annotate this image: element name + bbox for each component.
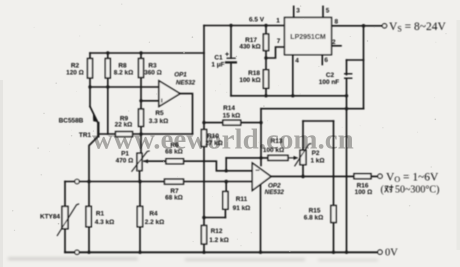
svg-text:NE532: NE532 <box>176 80 196 87</box>
svg-text:BC558B: BC558B <box>59 118 84 125</box>
svg-text:4.3 kΩ: 4.3 kΩ <box>95 219 114 226</box>
svg-text:R12: R12 <box>211 228 223 235</box>
svg-text:VO = 1~6V: VO = 1~6V <box>386 171 439 184</box>
svg-text:7: 7 <box>277 38 281 45</box>
svg-text:100 Ω: 100 Ω <box>355 189 373 196</box>
svg-text:100 nF: 100 nF <box>319 79 339 86</box>
svg-text:TR1: TR1 <box>79 132 92 139</box>
svg-text:R13: R13 <box>271 138 283 145</box>
svg-text:R10: R10 <box>207 133 219 140</box>
svg-text:R1: R1 <box>96 210 105 217</box>
svg-text:470 Ω: 470 Ω <box>116 157 134 164</box>
svg-text:15 kΩ: 15 kΩ <box>223 113 241 120</box>
svg-text:6.5 V: 6.5 V <box>249 17 265 24</box>
svg-text:100 kΩ: 100 kΩ <box>239 77 260 84</box>
svg-text:3.3 kΩ: 3.3 kΩ <box>149 118 168 125</box>
svg-text:R14: R14 <box>223 105 235 112</box>
svg-text:5: 5 <box>326 7 330 14</box>
svg-text:4: 4 <box>295 57 299 64</box>
svg-text:120 Ω: 120 Ω <box>66 70 84 77</box>
svg-text:68 kΩ: 68 kΩ <box>165 149 183 156</box>
svg-text:8: 8 <box>335 18 339 25</box>
svg-text:68 kΩ: 68 kΩ <box>165 194 183 201</box>
svg-text:1.2 kΩ: 1.2 kΩ <box>209 237 228 244</box>
svg-text:91 kΩ: 91 kΩ <box>233 205 251 212</box>
svg-text:LP2951CM: LP2951CM <box>290 34 326 41</box>
svg-text:R2: R2 <box>71 63 80 70</box>
svg-text:R18: R18 <box>248 70 260 77</box>
svg-text:R5: R5 <box>155 110 164 117</box>
svg-text:0V: 0V <box>385 247 398 258</box>
svg-text:22 kΩ: 22 kΩ <box>115 121 133 128</box>
svg-text:27 kΩ: 27 kΩ <box>205 140 223 147</box>
svg-text:2.2 kΩ: 2.2 kΩ <box>145 219 164 226</box>
svg-text:430 kΩ: 430 kΩ <box>239 44 260 51</box>
svg-text:8.2 kΩ: 8.2 kΩ <box>114 70 133 77</box>
svg-text:360 Ω: 360 Ω <box>144 70 162 77</box>
svg-text:C1: C1 <box>214 55 223 62</box>
svg-text:P2: P2 <box>312 150 320 157</box>
svg-text:1 kΩ: 1 kΩ <box>310 158 324 165</box>
svg-text:1 μF: 1 μF <box>211 62 224 69</box>
svg-text:6: 6 <box>324 57 328 64</box>
svg-text:C2: C2 <box>326 72 335 79</box>
svg-text:R8: R8 <box>118 63 127 70</box>
svg-text:KTY84: KTY84 <box>40 214 60 221</box>
svg-text:3: 3 <box>296 8 300 15</box>
svg-text:R11: R11 <box>236 196 248 203</box>
svg-text:NE532: NE532 <box>265 189 285 196</box>
svg-text:6.8 kΩ: 6.8 kΩ <box>304 215 323 222</box>
svg-text:OP1: OP1 <box>174 72 187 79</box>
svg-text:50~300°C): 50~300°C) <box>395 185 439 196</box>
svg-text:2: 2 <box>332 39 336 46</box>
svg-text:R3: R3 <box>148 63 157 70</box>
svg-text:R15: R15 <box>309 208 321 215</box>
svg-text:+: + <box>225 52 229 59</box>
svg-text:100 kΩ: 100 kΩ <box>263 147 284 154</box>
svg-text:1: 1 <box>276 18 280 25</box>
